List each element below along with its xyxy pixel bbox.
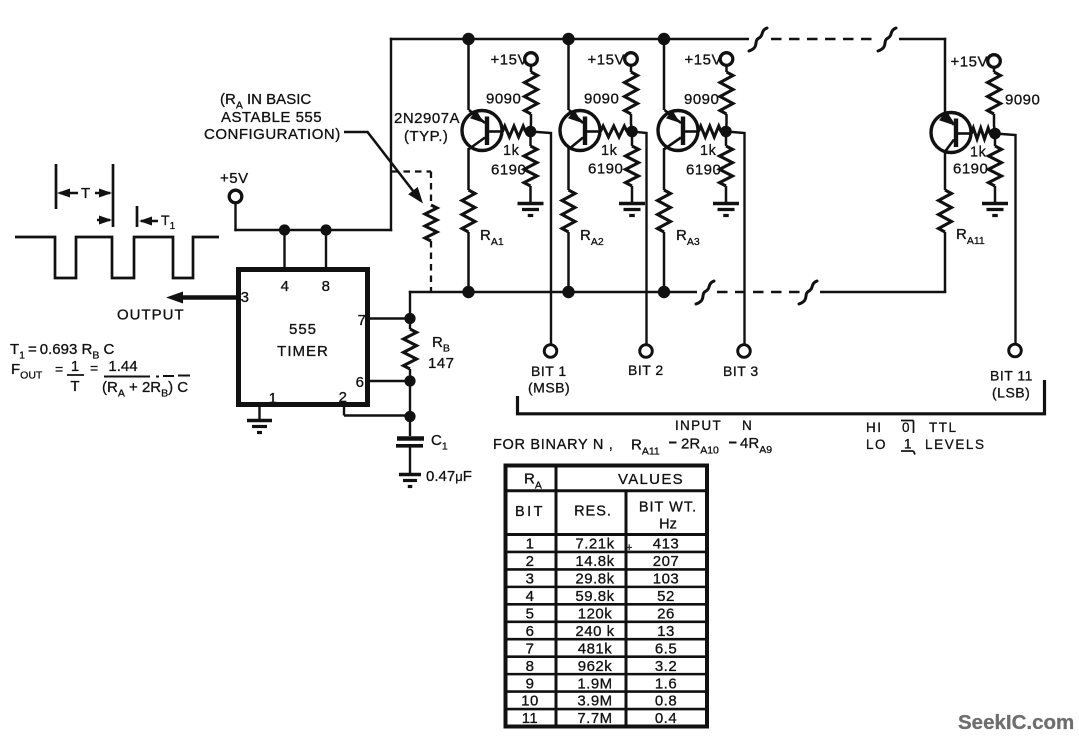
wire 1k to node Q11 [989, 132, 995, 135]
svg-text:ASTABLE 555: ASTABLE 555 [221, 109, 322, 126]
output arrow pin 3 [166, 292, 237, 304]
resistor 6190 Q1 [524, 132, 537, 203]
svg-text:8: 8 [322, 278, 331, 295]
resistor RA11 [939, 190, 952, 232]
table data rows [521, 536, 679, 728]
wire +5V bus to Q1 emitter [467, 39, 470, 110]
label HI 0 TTL [866, 420, 958, 435]
svg-text:3.2: 3.2 [655, 658, 677, 675]
label LO 1 LEVELS [866, 437, 986, 455]
wire node to bit input Q3 [726, 132, 745, 345]
transistor Q2 2N2907A PNP [560, 110, 601, 151]
svg-text:14.8k: 14.8k [575, 553, 614, 570]
svg-text:TIMER: TIMER [277, 343, 329, 360]
svg-text:9090: 9090 [486, 91, 521, 108]
svg-text:5: 5 [526, 605, 535, 622]
label BIT 11 (LSB) [990, 368, 1033, 401]
node Q3 junction [720, 126, 732, 138]
svg-text:1k: 1k [503, 143, 520, 159]
resistor 6190 Q3 [720, 132, 733, 203]
wire pin 2 [344, 404, 411, 416]
svg-text:240 k: 240 k [575, 623, 614, 640]
svg-text:CONFIGURATION): CONFIGURATION) [204, 126, 341, 143]
svg-text:4: 4 [281, 278, 290, 295]
svg-text:INPUT: INPUT [675, 418, 722, 433]
wire node to bit input Q11 [995, 134, 1016, 345]
transistor Q1 2N2907A PNP [462, 110, 503, 151]
svg-text:3: 3 [526, 571, 535, 588]
svg-text:2: 2 [339, 389, 348, 406]
svg-text:52: 52 [657, 588, 675, 605]
ground Q11 [982, 204, 1008, 216]
svg-text:120k: 120k [578, 605, 613, 622]
wire +5V bus to Q3 emitter [663, 39, 666, 110]
ground Q2 [619, 204, 645, 216]
svg-text:6190: 6190 [491, 162, 526, 179]
svg-text:59.8k: 59.8k [575, 588, 614, 605]
svg-text:HI: HI [866, 420, 883, 435]
resistor RA1 [462, 190, 475, 232]
pulse width T1 dimension marks [97, 206, 176, 232]
svg-text:Hz: Hz [659, 517, 677, 533]
resistor RB [404, 319, 417, 382]
resistor 9090 collector-load Q3 [720, 65, 733, 131]
svg-text:3: 3 [241, 289, 250, 306]
svg-text:0.47μF: 0.47μF [426, 468, 472, 485]
ground Q1 [518, 204, 544, 216]
svg-text:7: 7 [526, 640, 535, 657]
resistor RA (dashed astable position) [392, 172, 437, 292]
junction top bus stage 2 [562, 33, 574, 45]
junction pin 6 node [404, 375, 415, 386]
svg-text:6: 6 [526, 623, 535, 640]
resistor 1k base Q2 [601, 126, 628, 137]
terminal BIT 11 [1009, 344, 1022, 357]
junction pin4 stub [279, 224, 290, 235]
svg-text:0.8: 0.8 [655, 693, 677, 710]
svg-text:N: N [742, 418, 752, 433]
svg-text:BIT 11: BIT 11 [990, 368, 1033, 384]
bottom bus dashed segment [717, 291, 800, 294]
bottom bus break right [799, 281, 817, 304]
top bus wire (left solid) [390, 38, 749, 41]
svg-text:1k: 1k [700, 143, 717, 159]
wire 1k to node Q2 [626, 130, 632, 133]
node Q11 junction [989, 128, 1001, 140]
svg-text:+15V: +15V [951, 54, 988, 71]
svg-text:(TYP.): (TYP.) [404, 128, 448, 145]
bottom bus wire (left solid) [409, 291, 697, 294]
svg-text:+15V: +15V [685, 52, 722, 69]
svg-text:6190: 6190 [588, 161, 623, 178]
svg-text:VALUES: VALUES [618, 471, 684, 488]
transistor Q3 2N2907A PNP [658, 110, 699, 151]
svg-text:+: + [626, 542, 633, 554]
svg-text:26: 26 [657, 605, 675, 622]
junction top bus stage 1 [462, 33, 474, 45]
top bus wire (right solid) [899, 38, 946, 41]
+15V supply terminal Q11 [951, 54, 1001, 71]
node Q1 junction [525, 126, 537, 138]
svg-text:FOR BINARY N ,: FOR BINARY N , [493, 437, 613, 453]
svg-text:4: 4 [526, 588, 535, 605]
svg-text:1k: 1k [970, 145, 987, 161]
svg-text:=: = [55, 361, 63, 377]
svg-text:2: 2 [526, 553, 535, 570]
svg-text:7: 7 [358, 312, 367, 329]
svg-text:481k: 481k [578, 640, 613, 657]
resistor 9090 collector-load Q2 [625, 65, 638, 131]
wire collector to RA Q2 [567, 148, 570, 190]
junction bottom bus RA1 [462, 286, 474, 298]
junction pin 7 node [404, 313, 415, 324]
svg-text:13: 13 [657, 623, 675, 640]
capacitor C1 [396, 439, 424, 446]
svg-text:0.4: 0.4 [655, 710, 677, 727]
svg-text:T: T [70, 378, 79, 395]
output waveform [15, 237, 219, 278]
svg-text:3.9M: 3.9M [577, 693, 612, 710]
svg-text:LO: LO [866, 437, 887, 452]
junction bottom bus RA3 [658, 286, 670, 298]
svg-text:(MSB): (MSB) [528, 380, 570, 396]
svg-text:555: 555 [289, 321, 317, 338]
wire pin 8 [325, 230, 327, 268]
svg-text:0: 0 [902, 420, 910, 435]
svg-text:RES.: RES. [574, 504, 612, 520]
+15V supply terminal Q1 [491, 52, 538, 69]
svg-text:=: = [90, 360, 98, 376]
svg-text:6190: 6190 [686, 162, 721, 179]
svg-text:TTL: TTL [929, 420, 958, 435]
svg-text:1.44: 1.44 [108, 358, 137, 375]
table RA values [504, 465, 709, 727]
wire pin 4 [283, 230, 285, 268]
wire node to bit input Q1 [531, 132, 552, 345]
svg-text:1: 1 [904, 437, 912, 452]
svg-text:OUTPUT: OUTPUT [117, 307, 185, 324]
svg-text:(LSB): (LSB) [992, 385, 1030, 401]
svg-text:147: 147 [428, 355, 455, 372]
svg-text:LEVELS: LEVELS [925, 437, 986, 452]
wire collector to RA Q3 [663, 148, 666, 190]
wire 1k to node Q3 [720, 130, 726, 133]
top bus dashed segment [771, 38, 878, 41]
terminal BIT 1 [544, 345, 557, 358]
svg-text:413: 413 [653, 536, 680, 553]
svg-text:BIT: BIT [515, 504, 545, 520]
+15V supply terminal Q2 [588, 52, 638, 69]
+5V rail wire [234, 229, 392, 231]
junction top bus stage 3 [658, 33, 670, 45]
svg-text:6190: 6190 [953, 161, 988, 178]
wire RA to bottom bus Q1 [467, 232, 470, 293]
svg-text:103: 103 [653, 571, 680, 588]
+5V supply terminal [220, 170, 249, 203]
junction pin 2 node [404, 411, 415, 422]
wire +5V bus to Q2 emitter [567, 39, 570, 110]
svg-text:962k: 962k [578, 658, 613, 675]
resistor 9090 collector-load Q1 [525, 65, 538, 131]
wire RA to bottom bus Q2 [567, 232, 570, 293]
junction pin8 stub [320, 224, 331, 235]
svg-text:8: 8 [526, 658, 535, 675]
wire collector to RA Q11 [944, 150, 947, 190]
leader arrow to RA [344, 131, 423, 203]
svg-text:9090: 9090 [684, 91, 719, 108]
label BIT 1 (MSB) [528, 363, 570, 396]
op IC U1 555 timer body [239, 270, 368, 405]
wire bottom bus corner down to pin 7 node [409, 291, 411, 319]
svg-text:T: T [81, 185, 91, 202]
svg-text:2N2907A: 2N2907A [394, 110, 460, 127]
period T dimension marks [56, 164, 113, 227]
svg-text:10: 10 [521, 693, 539, 710]
svg-text:+15V: +15V [588, 52, 625, 69]
svg-text:BIT WT.: BIT WT. [639, 500, 697, 516]
svg-text:1k: 1k [601, 143, 618, 159]
resistor 9090 collector-load Q11 [988, 67, 1001, 133]
bottom bus break left [696, 281, 714, 304]
top bus break left [749, 28, 767, 51]
label 555 TIMER [277, 321, 329, 360]
transistor Q11 2N2907A PNP [931, 112, 972, 153]
svg-text:BIT 2: BIT 2 [628, 362, 664, 378]
svg-text:BIT 3: BIT 3 [723, 363, 759, 379]
svg-text:1.6: 1.6 [655, 675, 677, 692]
svg-text:1: 1 [526, 536, 535, 553]
wire +5V rail to top bus [390, 38, 392, 231]
resistor 6190 Q11 [989, 134, 1002, 203]
ground pin 1 [247, 404, 272, 433]
svg-text:6: 6 [356, 374, 365, 391]
junction bottom bus RA2 [562, 286, 574, 298]
label FOR BINARY N formula [493, 435, 772, 458]
svg-text:+15V: +15V [491, 52, 528, 69]
svg-text:1: 1 [269, 390, 278, 407]
wire 1k to node Q1 [525, 130, 531, 133]
ground Q3 [713, 204, 739, 216]
table header labels [515, 471, 697, 533]
wire pin 6 [367, 380, 411, 382]
bottom bus wire (right solid) [820, 291, 946, 294]
node Q2 junction [626, 126, 638, 138]
svg-text:9090: 9090 [584, 91, 619, 108]
top bus break right [878, 28, 896, 51]
wire pin6 node to C1 [409, 381, 411, 436]
svg-text:11: 11 [522, 710, 539, 727]
wire collector to RA Q1 [467, 148, 470, 190]
wire node to bit input Q2 [632, 132, 647, 345]
note (RA IN BASIC ASTABLE 555 CONFIGURATION) [204, 91, 341, 143]
label 2N2907A (TYP.) [394, 110, 460, 145]
resistor RA3 [658, 190, 671, 232]
svg-text:1: 1 [71, 358, 79, 375]
wire RA to bottom bus Q11 [944, 232, 947, 293]
svg-text:BIT 1: BIT 1 [531, 363, 567, 379]
svg-text:9090: 9090 [1005, 92, 1040, 109]
wire top bus corner down to Q11 [944, 38, 947, 112]
wire C1 to ground [409, 446, 411, 473]
ground C1 [399, 475, 421, 487]
resistor 1k base Q3 [699, 126, 722, 137]
resistor 1k base Q1 [503, 126, 526, 137]
resistor 1k base Q11 [972, 128, 991, 139]
svg-text:29.8k: 29.8k [575, 571, 614, 588]
terminal BIT 3 [738, 345, 751, 358]
wire +5V terminal to rail [234, 203, 236, 231]
input group bracket [518, 380, 1045, 414]
wire pin 7 [367, 317, 411, 319]
svg-text:+5V: +5V [220, 170, 249, 187]
resistor 6190 Q2 [626, 132, 639, 203]
svg-text:SeekIC.com: SeekIC.com [958, 711, 1074, 734]
formula FOUT [11, 358, 190, 400]
wire RA to bottom bus Q3 [663, 232, 666, 293]
svg-text:9: 9 [526, 675, 535, 692]
svg-text:1.9M: 1.9M [577, 675, 612, 692]
+15V supply terminal Q3 [685, 52, 733, 69]
svg-text:7.21k: 7.21k [575, 536, 614, 553]
svg-text:7.7M: 7.7M [577, 710, 612, 727]
resistor RA2 [562, 190, 575, 232]
terminal BIT 2 [640, 345, 653, 358]
svg-text:207: 207 [653, 553, 680, 570]
svg-text:6.5: 6.5 [655, 640, 677, 657]
